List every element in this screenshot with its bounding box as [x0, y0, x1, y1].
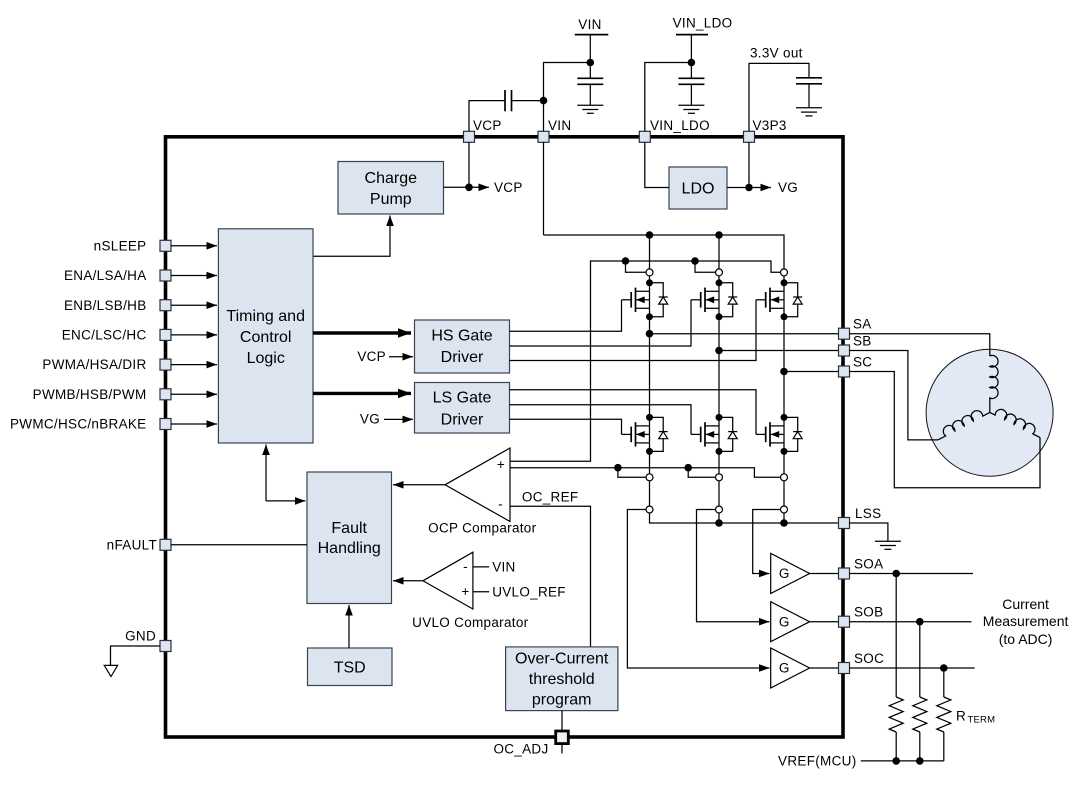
source sense contact C [781, 474, 788, 481]
wire sense tap B [695, 261, 716, 272]
svg-text:-: - [498, 497, 503, 512]
svg-text:OC_ADJ: OC_ADJ [493, 742, 548, 757]
node VIN junction [587, 59, 595, 67]
pin VIN_LDO (top edge) [639, 118, 710, 142]
wire PWMB to timing [171, 393, 217, 395]
TSD block [308, 648, 393, 686]
wire UVLO plus stub [473, 591, 489, 593]
svg-text:Handling: Handling [318, 540, 381, 557]
svg-text:Driver: Driver [441, 349, 484, 366]
capacitor C3 (VIN_LDO bypass) [678, 63, 704, 106]
wire VG to LS driver [384, 418, 413, 420]
amplifier G (SOC) [771, 648, 810, 688]
node sense bus A [622, 257, 630, 265]
node rail phase A [646, 231, 654, 239]
wire OCP sense tap A [618, 468, 646, 478]
svg-text:+: + [497, 457, 505, 472]
capacitor C2 (VIN bypass) [577, 63, 603, 106]
svg-text:PWMB/HSB/PWM: PWMB/HSB/PWM [33, 387, 147, 402]
node sense bus B [691, 257, 699, 265]
ground (VIN_LDO bypass) [678, 105, 704, 113]
charge pump U1 [338, 162, 444, 215]
wire ENC to timing [171, 334, 217, 336]
wire nFAULT to fault handling [171, 544, 307, 546]
svg-text:SB: SB [853, 334, 872, 349]
wire HS driver out 3 [510, 300, 757, 361]
wire GND pin to ground [111, 646, 161, 665]
pin GND [125, 629, 171, 652]
amplifier G (SOA) [771, 553, 810, 593]
wire shunt tap A to SOC amp [627, 510, 769, 669]
wire OC block to OC_ADJ pin [561, 711, 563, 731]
svg-text:ENB/LSB/HB: ENB/LSB/HB [64, 298, 147, 313]
node V3P3 output junction [745, 184, 753, 192]
wire VIN_LDO pin to LDO input [645, 142, 669, 187]
wire SOC to ADC [849, 667, 974, 669]
svg-text:Driver: Driver [441, 411, 484, 428]
wire SC to pin [784, 371, 839, 373]
drain sense contact B [716, 269, 723, 276]
svg-text:UVLO_REF: UVLO_REF [492, 584, 566, 599]
wire charge pump output to VCP [444, 186, 490, 188]
svg-text:LSS: LSS [855, 506, 881, 521]
svg-text:SA: SA [853, 317, 872, 332]
drain sense contact A [646, 269, 653, 276]
wire VCP to HS driver [389, 356, 413, 358]
svg-text:Logic: Logic [247, 350, 285, 367]
shunt contact A [646, 506, 653, 513]
pin V3P3 (top edge) [744, 118, 787, 142]
op-amp OCP comparator [445, 448, 510, 522]
wire VDS sense bus (top) [510, 261, 781, 461]
capacitor C1 (series VCP-VIN) [505, 90, 512, 111]
wire LDO output to VG [727, 187, 771, 189]
svg-text:ENC/LSC/HC: ENC/LSC/HC [62, 328, 147, 343]
wire VIN pin down to bridge rail [543, 142, 545, 235]
node VREF R1 [892, 757, 900, 765]
node LSS C [780, 519, 788, 527]
svg-text:R: R [956, 709, 966, 724]
ground (LSS) [875, 541, 901, 549]
wire V3P3 pin to 3.3V cap [749, 63, 809, 131]
wire LSS pin to ground [849, 523, 888, 541]
resistor R2 (SOB termination) [913, 622, 927, 761]
pin VCP (top edge) [464, 118, 502, 142]
wire VCP pin up to series cap [469, 101, 505, 132]
svg-text:VIN: VIN [548, 118, 571, 133]
inductor winding A (top) [990, 355, 998, 412]
svg-text:ENA/LSA/HA: ENA/LSA/HA [64, 268, 147, 283]
svg-text:Fault: Fault [331, 520, 367, 537]
wire OCP output to fault handling [393, 484, 445, 486]
svg-text:G: G [779, 614, 790, 629]
wire phase B column [718, 235, 720, 523]
node SOA termination [892, 570, 900, 578]
wire OCP sense bus (bottom) [510, 468, 781, 478]
svg-text:GND: GND [125, 629, 156, 644]
pin ENC/LSC/HC [62, 328, 171, 343]
pin PWMC/HSC/nBRAKE [10, 417, 171, 432]
label current measurement [983, 596, 1069, 647]
pin LSS [839, 506, 882, 529]
svg-text:SOA: SOA [854, 557, 883, 572]
wire timing logic to charge pump [313, 216, 390, 257]
node VIN_LDO junction [688, 59, 696, 67]
pin nFAULT [107, 537, 171, 552]
svg-text:UVLO Comparator: UVLO Comparator [412, 615, 528, 630]
wire UVLO output to fault handling [393, 580, 423, 582]
wire SOA to ADC [849, 573, 973, 575]
wire VREF(MCU) [861, 760, 944, 762]
timing and control logic block [218, 229, 313, 443]
svg-text:Measurement: Measurement [983, 613, 1069, 629]
wire HS driver out 1 [510, 300, 622, 332]
ground (GND chassis) [104, 665, 118, 676]
wire bridge VIN rail [544, 235, 785, 523]
svg-text:VIN: VIN [578, 17, 601, 32]
svg-text:VIN: VIN [492, 559, 515, 574]
svg-text:+: + [461, 584, 469, 599]
device outer box [166, 137, 844, 737]
wire SOB amp out [810, 621, 839, 623]
wire LS driver out 2 [510, 405, 692, 435]
shunt contact C [781, 506, 788, 513]
transistor HS-C [756, 279, 802, 320]
svg-text:program: program [532, 691, 592, 708]
svg-text:VCP: VCP [473, 118, 502, 133]
svg-text:nSLEEP: nSLEEP [94, 238, 147, 253]
svg-text:VCP: VCP [357, 349, 386, 364]
node OCP sense A [614, 464, 622, 472]
capacitor C4 (V3P3 bypass) [796, 78, 822, 108]
svg-text:Current: Current [1002, 596, 1049, 612]
label RTERM [956, 709, 995, 726]
svg-text:(to ADC): (to ADC) [999, 631, 1053, 647]
wire VCP pin down [468, 142, 470, 187]
wire UVLO minus stub [473, 566, 489, 568]
svg-text:G: G [779, 566, 790, 581]
wire phase A column [650, 235, 839, 523]
svg-text:3.3V out: 3.3V out [750, 46, 803, 61]
ground (V3P3 bypass) [796, 108, 822, 116]
node SOB termination [916, 618, 924, 626]
HS gate driver block [415, 320, 510, 373]
wire series cap to VIN column [512, 100, 544, 102]
wire OC_ADJ stub below [561, 744, 563, 754]
junction on VIN pin column [540, 97, 548, 105]
pin PWMA/HSA/DIR [42, 357, 171, 372]
transistor HS-B [691, 279, 737, 320]
svg-text:Timing and: Timing and [226, 308, 305, 325]
svg-text:Control: Control [240, 329, 292, 346]
svg-text:LDO: LDO [682, 181, 715, 198]
wire SOC amp out [810, 667, 839, 669]
pin VIN (top edge) [538, 118, 571, 142]
transistor HS-A [622, 279, 668, 320]
wire ENB to timing [171, 304, 217, 306]
resistor R1 (SOA termination) [889, 574, 903, 761]
pin SOB [839, 605, 884, 628]
inductor winding C (right) [990, 405, 1044, 437]
node VREF R2 [916, 757, 924, 765]
node SC [780, 368, 788, 376]
svg-text:G: G [779, 661, 790, 676]
node SA [646, 330, 654, 338]
drain sense contact C [781, 269, 788, 276]
motor M1 body [926, 349, 1053, 476]
pin PWMB/HSB/PWM [33, 387, 171, 402]
svg-text:V3P3: V3P3 [753, 118, 787, 133]
fault handling block [307, 472, 392, 604]
wire SA to pin [650, 333, 839, 335]
wire V3P3 pin down [748, 142, 750, 187]
svg-text:threshold: threshold [529, 671, 595, 688]
svg-text:LS Gate: LS Gate [433, 389, 492, 406]
transistor LS-A [622, 414, 668, 455]
svg-text:Over-Current: Over-Current [515, 651, 609, 668]
LDO U2 [669, 167, 727, 209]
pin ENB/LSB/HB [64, 298, 171, 313]
wire SOB to ADC [849, 621, 971, 623]
source sense contact A [646, 474, 653, 481]
transistor LS-C [756, 414, 802, 455]
svg-text:-: - [463, 559, 468, 574]
pin SB [839, 334, 872, 357]
source sense contact B [716, 474, 723, 481]
wire LS driver out 3 [510, 419, 622, 434]
svg-text:VCP: VCP [494, 180, 523, 195]
wire OC_REF from OCP minus input [510, 506, 591, 647]
pin OC_ADJ (thick) [556, 731, 569, 744]
svg-text:VG: VG [778, 180, 798, 195]
svg-text:VG: VG [360, 412, 380, 427]
svg-text:VREF(MCU): VREF(MCU) [778, 754, 856, 769]
node SB [715, 347, 723, 355]
wire timing to fault handling (two arrows) [266, 445, 306, 501]
wire VIN pin up to VIN node [544, 63, 591, 132]
over-current threshold program block [506, 647, 618, 711]
pin ENA/LSA/HA [64, 268, 171, 283]
bus timing to LS gate driver [313, 392, 411, 395]
wire SB to pin [719, 350, 839, 352]
pin nSLEEP [94, 238, 171, 253]
svg-text:SOB: SOB [854, 605, 883, 620]
wire SC to motor [849, 372, 1040, 488]
wire TSD to fault handling [348, 605, 350, 648]
wire HS driver out 2 [510, 300, 692, 346]
svg-text:TSD: TSD [334, 660, 366, 677]
pin SOA [839, 557, 884, 580]
svg-text:OCP Comparator: OCP Comparator [428, 520, 536, 535]
power flag VIN_LDO [673, 16, 733, 63]
node LSS B [715, 519, 723, 527]
wire shunt tap C to SOA amp [753, 510, 781, 574]
bus timing to HS gate driver [313, 331, 411, 334]
inductor winding B (left) [934, 405, 990, 440]
pin SC [839, 355, 873, 378]
amplifier G (SOB) [771, 602, 810, 642]
ground (VIN bypass) [577, 105, 603, 113]
svg-text:VIN_LDO: VIN_LDO [673, 16, 733, 31]
pin SOC [839, 651, 885, 674]
wire sense tap A [626, 261, 647, 272]
svg-text:Pump: Pump [370, 191, 412, 208]
shunt contact B [716, 506, 723, 513]
wire SB to motor [849, 351, 938, 440]
svg-text:TERM: TERM [968, 715, 996, 726]
op-amp UVLO comparator [423, 552, 473, 609]
svg-text:OC_REF: OC_REF [522, 490, 579, 505]
wire PWMC to timing [171, 423, 217, 425]
wire ENA to timing [171, 275, 217, 277]
wire shunt tap B to SOB amp [697, 510, 770, 622]
svg-text:Charge: Charge [365, 170, 418, 187]
svg-text:VIN_LDO: VIN_LDO [650, 118, 710, 133]
svg-text:PWMA/HSA/DIR: PWMA/HSA/DIR [42, 357, 146, 372]
wire SA to motor [849, 334, 990, 356]
wire SOA amp out [810, 573, 839, 575]
resistor R3 (RTERM) [937, 668, 951, 761]
svg-text:nFAULT: nFAULT [107, 537, 157, 552]
svg-text:SOC: SOC [854, 651, 884, 666]
wire PWMA to timing [171, 364, 217, 366]
pin SA [839, 317, 872, 340]
node VCP output junction [465, 184, 473, 192]
power flag VIN [575, 17, 609, 63]
node rail phase B [715, 231, 723, 239]
transistor LS-B [691, 414, 737, 455]
wire VIN_LDO node to pin [645, 63, 692, 132]
wire LS driver out 1 [510, 390, 757, 435]
wire nSLEEP to timing [171, 245, 217, 247]
node OCP sense B [684, 464, 692, 472]
node SOC termination [940, 664, 948, 672]
LS gate driver block [415, 383, 510, 434]
svg-text:SC: SC [853, 355, 872, 370]
svg-text:PWMC/HSC/nBRAKE: PWMC/HSC/nBRAKE [10, 417, 147, 432]
svg-text:HS Gate: HS Gate [431, 328, 492, 345]
wire OCP sense tap B [688, 468, 715, 478]
